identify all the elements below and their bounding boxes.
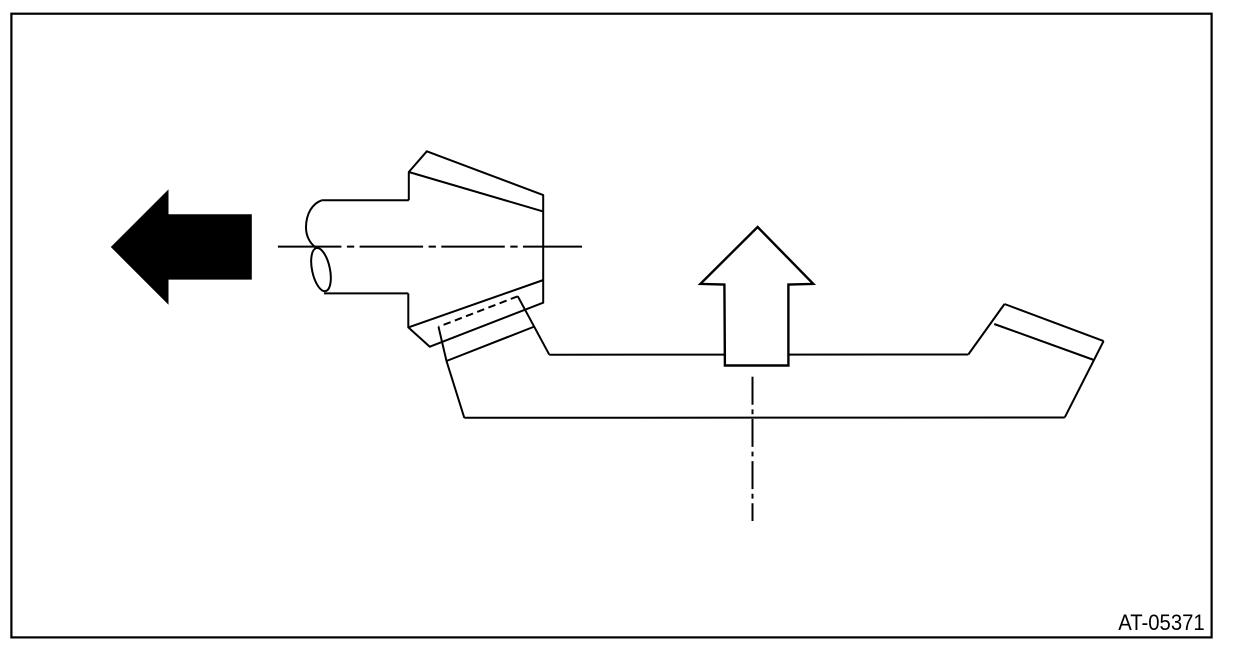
ring gear right flange inner tooth line: [994, 324, 1094, 360]
svg-text:AT-05371: AT-05371: [1118, 610, 1205, 635]
ring gear vertical axis centerline (dash-dot): [752, 377, 754, 521]
ring gear right flange edge AB: [968, 304, 1004, 355]
ring gear dish top surface line: [549, 354, 968, 356]
ring gear right flange top edge BC: [1005, 304, 1104, 341]
drive pinion bevel gear outline: [408, 151, 543, 346]
ring gear dish bottom line: [464, 417, 1065, 419]
pinion upper tooth land line: [409, 172, 543, 211]
ring gear right flange outer edge CE: [1065, 341, 1104, 417]
ring gear left flange inner tooth line: [447, 327, 535, 362]
ring gear left flange edge A'B': [518, 296, 550, 354]
shaft end cap upper arc: [306, 200, 322, 247]
drive pinion shaft top line: [322, 199, 409, 201]
pinion lower tooth land line: [408, 280, 543, 327]
ring gear left flange outer edge: [439, 327, 465, 418]
shaft end cap lower ellipse: [308, 246, 335, 293]
pinion shaft axis centerline (dash-dot): [278, 246, 582, 248]
drive pinion shaft bottom line: [324, 292, 408, 294]
removal direction arrow (solid black, pointing left): [111, 189, 252, 304]
lift direction arrow (white, outlined, pointing up): [700, 227, 813, 366]
ring gear left flange hidden top edge (dashed): [439, 296, 518, 327]
